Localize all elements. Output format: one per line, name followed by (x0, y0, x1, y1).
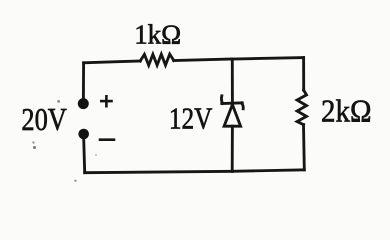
wire: bottom T-junction to bottom-right corner (232, 170, 304, 172)
resistor R2 2kOhm (zigzag, right branch) (297, 90, 306, 124)
svg-text:12V: 12V (169, 101, 213, 136)
source V1 + terminal dot (78, 98, 89, 109)
scan speckles (noise) (32, 100, 97, 182)
svg-text:20V: 20V (21, 102, 67, 137)
resistor R1 1kOhm (zigzag, top wire) (140, 54, 174, 65)
wire: top T-junction to top-right corner (232, 58, 303, 59)
zener diode D1 cathode bar (222, 101, 243, 104)
svg-text:1kΩ: 1kΩ (134, 20, 181, 50)
zener diode D1 cathode bar left hook (up) (221, 96, 222, 104)
wire: left vertical, - terminal to bottom-left corner (84, 139, 85, 173)
wire: bottom, left corner to bottom T-junction (85, 171, 233, 172)
wire: left vertical, top corner to + terminal (82, 63, 85, 99)
zener diode D1 cathode bar right hook (down) (242, 103, 244, 109)
wire: middle branch, top T-junction to zener cathode bar (231, 59, 234, 104)
wire: top-left corner to 1k resistor (84, 61, 141, 63)
wire: 2k resistor to bottom-right corner (302, 125, 306, 170)
plus sign of source (105, 96, 108, 106)
zener diode D1 anode triangle (224, 105, 241, 127)
svg-text:2kΩ: 2kΩ (321, 94, 372, 129)
wire: right vertical, top corner to 2k resistor (302, 58, 305, 91)
wire: 1k resistor to top T-junction (174, 59, 233, 61)
source V1 - terminal dot (78, 129, 89, 140)
minus sign of source (100, 138, 114, 141)
wire: zener anode to bottom T-junction (231, 126, 234, 171)
